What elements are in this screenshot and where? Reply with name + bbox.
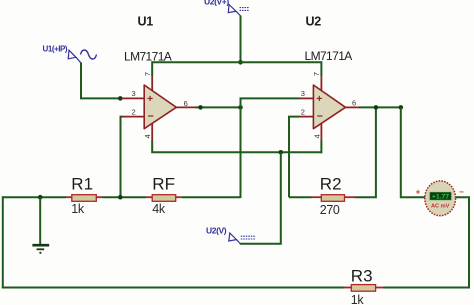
- wire R2 right to output: [355, 107, 377, 198]
- svg-text:R3: R3: [351, 267, 373, 286]
- svg-text:R1: R1: [71, 175, 93, 194]
- svg-text:U2(V): U2(V): [206, 226, 227, 236]
- wire to U2 pin3: [240, 97, 300, 99]
- svg-text:6: 6: [352, 99, 356, 108]
- svg-text:7: 7: [312, 72, 321, 76]
- wire U1 pin2 feedback corner: [121, 116, 123, 198]
- svg-text:AC mV: AC mV: [431, 204, 450, 210]
- svg-text:2: 2: [301, 107, 305, 116]
- svg-text:U1: U1: [138, 14, 154, 28]
- svg-text:+: +: [316, 93, 322, 105]
- voltmeter AC mV: [416, 181, 465, 216]
- wire top rail pin7 U1 to pin7 U2: [152, 61, 321, 63]
- wire voltmeter vertical: [401, 107, 425, 198]
- svg-text:RF: RF: [152, 175, 175, 194]
- svg-text:4k: 4k: [152, 202, 166, 216]
- wire bottom rail right: [383, 287, 470, 289]
- svg-text:U1(+IP): U1(+IP): [43, 45, 68, 54]
- svg-text:2: 2: [132, 107, 136, 116]
- wire battery vertical: [240, 152, 281, 244]
- wire ground drop: [39, 197, 41, 245]
- svg-text:1k: 1k: [71, 202, 85, 216]
- svg-text:LM7171A: LM7171A: [124, 50, 172, 64]
- wire RF to output corner: [182, 196, 241, 198]
- svg-text:−: −: [317, 111, 323, 123]
- svg-text:4: 4: [143, 134, 152, 138]
- svg-text:4: 4: [312, 134, 321, 138]
- node ground tap junction: [38, 195, 43, 200]
- op-amp U2: [299, 76, 360, 142]
- wire voltmeter right: [456, 196, 470, 288]
- wire ground rail left: [3, 196, 66, 198]
- svg-text:7: 7: [143, 72, 152, 76]
- wire power U2(V+) vertical: [240, 16, 242, 64]
- wire R1 to RF: [102, 196, 146, 198]
- svg-text:U2: U2: [306, 14, 322, 28]
- svg-text:3: 3: [132, 89, 136, 98]
- svg-text:3: 3: [301, 89, 305, 98]
- node U1 output dot: [198, 105, 203, 110]
- node pin4 rail junction: [279, 150, 284, 155]
- op-amp U2 pin numbers: [301, 72, 356, 139]
- svg-text:6: 6: [184, 99, 188, 108]
- node U1 pin3 junction: [118, 96, 123, 101]
- svg-text:−: −: [148, 111, 154, 123]
- op-amp U1: [122, 76, 196, 142]
- wire U2 output: [359, 106, 401, 108]
- resistor R2: [311, 195, 355, 202]
- op-amp U1 pin numbers: [132, 72, 188, 139]
- wire U2 pin2 loop: [289, 116, 300, 198]
- svg-text:+: +: [147, 93, 153, 105]
- node R2 feedback junction: [374, 105, 379, 110]
- wire bottom rail left: [2, 287, 345, 289]
- svg-text:1k: 1k: [351, 293, 365, 305]
- resistor R3: [344, 285, 383, 292]
- node voltmeter branch junction: [399, 105, 404, 110]
- source V1 label U1(+IP): [43, 45, 97, 64]
- svg-text:270: 270: [320, 203, 340, 217]
- wire source V1 vertical: [80, 63, 82, 99]
- wire U1 pin7 drop: [151, 61, 153, 76]
- wire output vertical to RF: [240, 98, 242, 198]
- svg-text:+: +: [416, 188, 421, 197]
- svg-text:−: −: [459, 188, 464, 197]
- power terminal U2(V) battery: [206, 226, 255, 245]
- wire U1 output: [195, 106, 242, 108]
- wire U2 pin7 drop: [320, 61, 322, 76]
- svg-text:+1.77: +1.77: [432, 194, 449, 201]
- wire U1 pin4 drop: [152, 141, 321, 154]
- node U1 output to RF junction: [238, 105, 243, 110]
- wire source V1 to U1 pin3: [80, 97, 122, 99]
- resistor RF: [146, 195, 182, 202]
- wire U2 pin4 drop: [320, 141, 322, 154]
- wire left rail: [2, 196, 4, 288]
- svg-text:U2(V+): U2(V+): [204, 0, 229, 7]
- svg-text:R2: R2: [320, 175, 342, 194]
- wire U2 pin2 to R2: [289, 196, 312, 198]
- ground: [32, 245, 49, 254]
- node R1 RF junction: [118, 195, 123, 200]
- svg-text:LM7171A: LM7171A: [305, 49, 353, 63]
- node top rail junction: [238, 60, 243, 65]
- power terminal U2(V+) top: [204, 0, 250, 16]
- resistor R1: [66, 195, 103, 202]
